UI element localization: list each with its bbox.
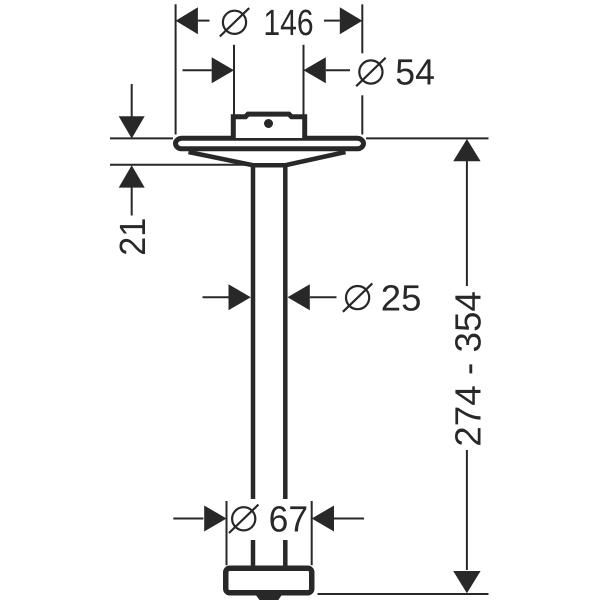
svg-text:21: 21 [112,218,153,256]
svg-text:54: 54 [395,52,435,93]
svg-text:67: 67 [269,499,309,540]
svg-text:146: 146 [263,2,313,43]
svg-text:274 - 354: 274 - 354 [447,291,488,447]
svg-text:25: 25 [381,278,422,319]
